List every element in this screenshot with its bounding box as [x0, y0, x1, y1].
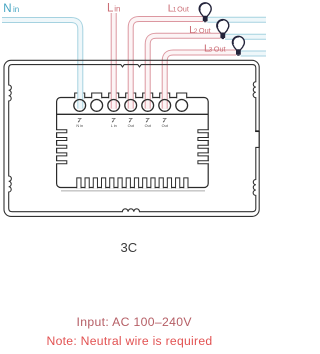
mounting plate outer outline — [4, 60, 259, 216]
wire neutral return from lamp 3 — [241, 51, 266, 57]
net label L3 Out — [204, 42, 226, 54]
wire neutral return from lamp 1 — [207, 17, 266, 23]
terminal pin labels: N in, L in, Out, Out, Out — [76, 124, 168, 128]
net label L in — [107, 3, 120, 15]
plate clip tab mark — [255, 130, 259, 132]
terminal 2 unused — [91, 100, 103, 112]
lamp bulb 1 (L1 load) — [199, 3, 211, 23]
mounting plate inner outline with clips — [9, 65, 260, 212]
net label L1 Out — [168, 3, 189, 15]
wire L in (live feed) — [111, 13, 117, 109]
switch module body (3-gang smart switch) — [57, 98, 209, 188]
svg-text:2: 2 — [194, 28, 198, 35]
svg-text:3C: 3C — [120, 240, 137, 255]
svg-text:in: in — [114, 5, 120, 14]
svg-text:Out: Out — [177, 5, 189, 14]
terminal 6 L3 out — [159, 100, 171, 112]
svg-text:L in: L in — [111, 124, 117, 128]
svg-text:L: L — [107, 3, 114, 15]
wire L1 out to lamp 1 — [131, 19, 203, 109]
terminal 3 L in — [108, 100, 120, 112]
svg-text:N: N — [3, 3, 11, 15]
svg-text:Out: Out — [162, 124, 169, 128]
terminal block divider line — [57, 113, 209, 115]
svg-text:Out: Out — [145, 124, 152, 128]
terminal 4 L1 out — [125, 100, 137, 112]
bottom vent comb — [77, 178, 188, 188]
svg-text:N in: N in — [76, 124, 83, 128]
shadow under module — [61, 190, 205, 192]
terminal 7 unused — [176, 100, 188, 112]
lamp bulb 2 (L2 load) — [217, 20, 229, 40]
svg-text:Out: Out — [214, 44, 226, 53]
net label L2 Out — [189, 24, 211, 36]
terminal 5 L2 out — [142, 100, 154, 112]
svg-text:3: 3 — [209, 46, 213, 53]
wire L2 out to lamp 2 — [148, 36, 221, 109]
terminal entry notches on top edge — [75, 93, 187, 98]
lamp bulb 3 (L3 load) — [232, 36, 244, 56]
wire N in (neutral feed) — [2, 20, 80, 109]
wire L3 out to lamp 3 — [165, 53, 237, 109]
right heat-sink comb — [198, 130, 209, 164]
terminal 1 N in — [74, 100, 86, 112]
svg-text:in: in — [13, 5, 19, 14]
net label N in — [3, 3, 19, 15]
left heat-sink comb — [56, 130, 67, 164]
terminal pin symbols — [78, 118, 167, 122]
svg-text:Input: AC 100–240V: Input: AC 100–240V — [76, 315, 192, 329]
svg-text:Note: Neutral wire is required: Note: Neutral wire is required — [47, 334, 213, 348]
wire neutral return from lamp 2 — [225, 34, 266, 40]
svg-text:Out: Out — [199, 26, 211, 35]
svg-text:Out: Out — [128, 124, 135, 128]
